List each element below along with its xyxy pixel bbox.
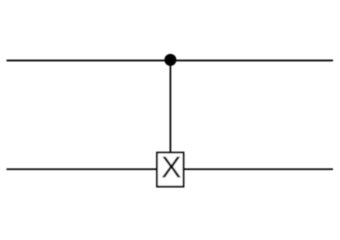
control dot on top wire [164,54,176,66]
wire: top qubit line [7,60,334,62]
wire: bottom qubit line [7,168,334,170]
gate label X (Liberation Sans glyph outline) [162,157,181,178]
gate X box [157,153,184,187]
wire: vertical control-target link [169,61,171,170]
